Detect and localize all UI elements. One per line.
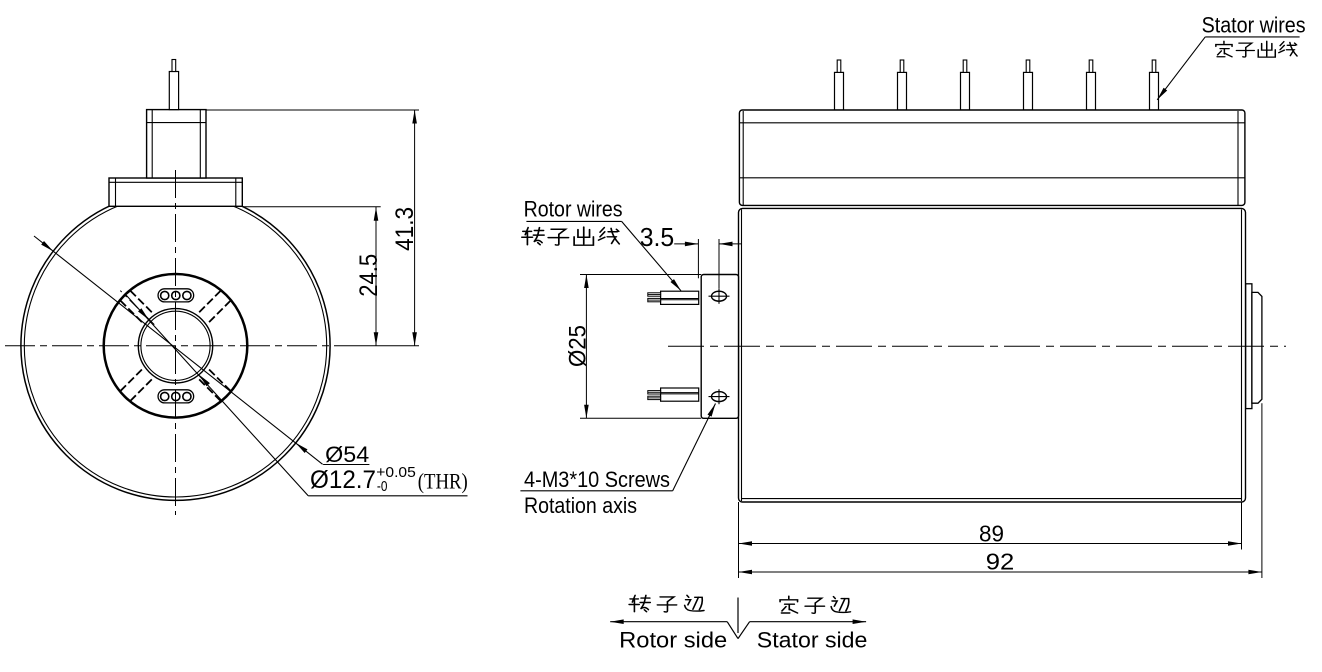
vertical centerline: [175, 170, 177, 515]
hidden slot at 225 deg (dashed): [130, 291, 152, 313]
hidden slot at 135 deg (dashed): [120, 370, 142, 392]
svg-text:Stator side: Stator side: [757, 628, 868, 653]
bottom slot with 3 holes: [158, 390, 194, 403]
svg-text:41.3: 41.3: [391, 207, 419, 251]
svg-text:4-M3*10 Screws: 4-M3*10 Screws: [524, 467, 670, 492]
stator wire 1: [835, 72, 844, 110]
hanzi zi (stator wires label): [1236, 43, 1254, 57]
stator wire 4: [1024, 72, 1033, 110]
svg-text:Rotation axis: Rotation axis: [524, 493, 637, 518]
hanzi ding (stator wires label): [1216, 41, 1232, 57]
hanzi ding (stator side label): [780, 596, 797, 613]
front view outer circle (double): [21, 191, 330, 500]
hub circle: [104, 274, 248, 418]
wide block: [109, 178, 242, 206]
left view wire: [169, 72, 178, 110]
stator top block: [739, 110, 1245, 205]
stator wire 5: [1087, 72, 1096, 110]
svg-text:3.5: 3.5: [640, 222, 675, 252]
svg-text:Ø12.7: Ø12.7: [310, 466, 376, 494]
leader line for D54: [34, 236, 323, 464]
leader line for D12.7: [126, 295, 308, 496]
svg-text:(THR): (THR): [418, 468, 468, 493]
stator wire 2: [898, 72, 907, 110]
rotor flange: [701, 275, 738, 419]
svg-text:92: 92: [986, 549, 1015, 575]
hanzi bian (rotor side label): [685, 595, 704, 611]
narrow block: [147, 110, 206, 178]
dimension 24.5: [243, 206, 381, 208]
NW slot centerline: [120, 291, 154, 325]
dimension 89: [738, 502, 740, 578]
svg-text:Stator wires: Stator wires: [1202, 12, 1306, 37]
top slot with 3 holes: [158, 289, 194, 302]
rotor wires bottom group: [661, 388, 699, 401]
stator wire 6: [1150, 72, 1159, 110]
svg-text:24.5: 24.5: [355, 254, 383, 297]
hanzi bian (stator side label): [831, 597, 850, 613]
svg-text:89: 89: [979, 521, 1004, 547]
dimension 3.5: [697, 239, 699, 278]
hanzi zhuan (rotor wires label): [522, 228, 544, 245]
svg-text:Ø25: Ø25: [565, 325, 592, 367]
stator wire 3: [961, 72, 970, 110]
dimension 92: [1261, 403, 1263, 578]
hanzi xian (stator wires label): [1279, 42, 1297, 56]
main body: [739, 208, 1246, 502]
rotor wires top group: [661, 291, 699, 304]
hanzi chu (rotor wires label): [574, 227, 593, 245]
shaft end caps: [1246, 284, 1252, 409]
hidden slot at 315 deg (dashed): [209, 301, 231, 323]
svg-text:Rotor side: Rotor side: [619, 628, 727, 653]
bore circle (double): [138, 309, 212, 383]
hanzi chu (stator wires label): [1258, 41, 1275, 57]
rotor/stator side arrows: [610, 621, 727, 623]
hanzi zhuan (rotor side label): [629, 595, 650, 611]
hidden slot at 45 deg (dashed): [199, 379, 221, 401]
screw top: [712, 291, 727, 301]
dimension 41.3: [206, 109, 419, 111]
svg-text:Ø54: Ø54: [325, 442, 369, 467]
hanzi zi (stator side label): [805, 598, 824, 613]
hanzi xian (rotor wires label): [599, 228, 620, 244]
svg-text:Rotor wires: Rotor wires: [524, 196, 623, 221]
svg-text:-0: -0: [377, 478, 388, 495]
hanzi zi (rotor side label): [657, 597, 676, 612]
hanzi zi (rotor wires label): [548, 229, 568, 245]
screw bottom: [712, 392, 727, 402]
horizontal centerline: [5, 345, 340, 347]
right view centerline: [668, 345, 1286, 347]
dimension D25: [580, 274, 701, 276]
